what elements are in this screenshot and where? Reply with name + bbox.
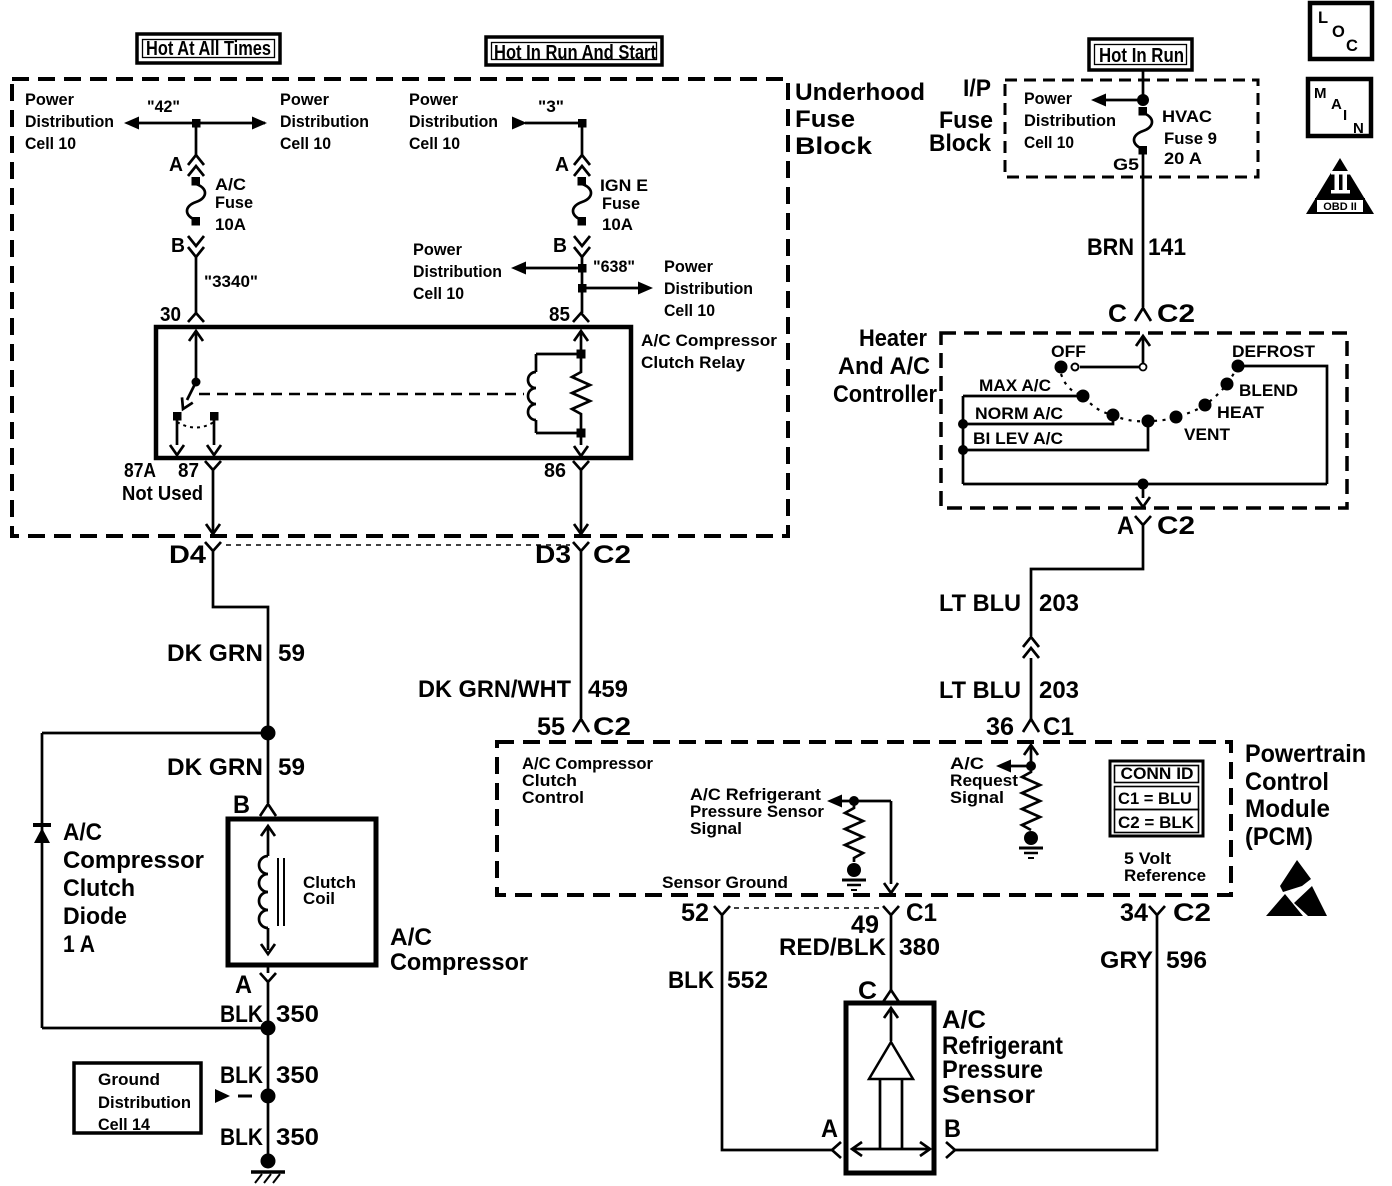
svg-text:A/C Compressor: A/C Compressor (522, 755, 654, 773)
connector 86 (573, 461, 589, 478)
relay switch arm (pin 30) (178, 331, 203, 412)
wire 3 rail to IGN E fuse (581, 123, 584, 155)
svg-text:OBD II: OBD II (1323, 201, 1357, 213)
wire output down (1136, 484, 1150, 507)
svg-text:380: 380 (899, 934, 940, 961)
node junction ground dist (261, 1089, 276, 1104)
OBD II symbol (1306, 158, 1374, 214)
wire MAX A/C to bus (963, 395, 1083, 398)
label A/C Compressor Clutch Control (522, 755, 654, 807)
connector A compressor (260, 965, 276, 990)
connector A C2 below controller (1117, 512, 1195, 540)
svg-text:Block: Block (929, 130, 992, 157)
junction square bottom (pin 86) (577, 429, 586, 438)
svg-text:Reference: Reference (1124, 867, 1206, 885)
svg-text:Clutch Relay: Clutch Relay (641, 354, 746, 372)
wire splice to 36 (1030, 658, 1033, 719)
connector C at sensor (858, 977, 899, 1005)
svg-text:350: 350 (276, 1124, 319, 1151)
wire controller A to PCM 36 (1031, 538, 1143, 636)
arrow to power distribution (I/P) (1091, 94, 1143, 107)
svg-text:A/C: A/C (63, 819, 102, 846)
svg-text:Fuse 9: Fuse 9 (1164, 130, 1217, 148)
svg-text:DK GRN/WHT: DK GRN/WHT (418, 676, 571, 703)
rotary switch wiper (1072, 364, 1079, 371)
svg-text:87: 87 (178, 460, 199, 482)
svg-text:34: 34 (1120, 899, 1148, 927)
svg-text:BLEND: BLEND (1239, 382, 1298, 400)
left bus wire (962, 396, 965, 484)
connector 55 C2 at PCM (537, 713, 631, 741)
clutch coil (259, 826, 284, 954)
svg-text:Module: Module (1245, 795, 1330, 823)
underhood fuse block dashed border (12, 79, 788, 536)
svg-text:A: A (1331, 96, 1342, 113)
PCM dashed border (497, 742, 1231, 895)
svg-text:Request: Request (950, 772, 1019, 790)
svg-text:Fuse: Fuse (215, 194, 253, 212)
wire sensor B to 34 (955, 925, 1157, 1150)
wire 86 to D3 (574, 478, 588, 534)
relay contact 87 (210, 412, 219, 421)
svg-text:Heater: Heater (859, 325, 927, 352)
svg-text:59: 59 (278, 754, 305, 781)
contact HEAT (1199, 399, 1212, 412)
rotary cam dotted arc (1061, 366, 1238, 421)
svg-text:IGN E: IGN E (600, 177, 648, 195)
node junction pressure signal (849, 796, 859, 806)
svg-text:And A/C: And A/C (838, 353, 930, 380)
svg-text:141: 141 (1148, 234, 1186, 261)
svg-text:"638": "638" (593, 258, 635, 276)
contact BLEND (1221, 378, 1234, 391)
MAIN symbol box (1308, 79, 1371, 137)
wire HVAC fuse down to C2 (1142, 150, 1145, 307)
svg-text:GRY: GRY (1100, 947, 1153, 974)
label Power Distribution Cell 10 (middle top) (409, 91, 498, 153)
svg-text:C2: C2 (1173, 899, 1211, 927)
svg-text:BI LEV A/C: BI LEV A/C (973, 430, 1063, 448)
svg-text:Powertrain: Powertrain (1245, 740, 1366, 768)
svg-text:Sensor: Sensor (942, 1081, 1035, 1109)
label A/C Compressor Clutch Diode 1 A (63, 819, 204, 958)
diode A/C compressor clutch diode (33, 823, 51, 843)
svg-text:Fuse: Fuse (795, 106, 855, 133)
label Power Distribution Cell 10 (left of 638) (413, 241, 502, 303)
svg-text:DEFROST: DEFROST (1232, 343, 1315, 361)
svg-text:Distribution: Distribution (98, 1094, 191, 1112)
label Clutch Coil (303, 874, 356, 908)
svg-text:B: B (944, 1115, 961, 1143)
svg-text:59: 59 (278, 640, 305, 667)
svg-text:C1 = BLU: C1 = BLU (1118, 790, 1192, 808)
arrow A/C request signal (996, 760, 1031, 773)
svg-text:L: L (1318, 9, 1328, 27)
svg-text:10A: 10A (602, 216, 633, 234)
wire fuse B to relay 30 (195, 257, 198, 313)
node output junction (1138, 479, 1149, 490)
svg-text:OFF: OFF (1051, 343, 1086, 361)
relay coil (528, 354, 581, 433)
wire C2 into controller (1136, 336, 1150, 367)
wire Hot In Run into I/P block (1142, 70, 1145, 100)
svg-text:A: A (1117, 512, 1134, 540)
fuse HVAC Fuse 9 20 A (1134, 107, 1152, 155)
svg-text:Power: Power (413, 241, 463, 259)
svg-text:HEAT: HEAT (1217, 404, 1264, 422)
svg-text:Cell 10: Cell 10 (25, 135, 76, 153)
CONN ID table (1110, 761, 1203, 836)
svg-text:Power: Power (664, 258, 714, 276)
svg-text:I/P: I/P (963, 75, 991, 102)
ground G101 (251, 1154, 285, 1184)
label Powertrain Control Module (PCM) (1245, 740, 1366, 851)
label BLK 350 (1) (220, 1001, 319, 1028)
connector row dashed line D4-D3 (226, 544, 570, 546)
compressor box (228, 819, 376, 965)
svg-text:5 Volt: 5 Volt (1124, 850, 1172, 868)
label I/P Fuse Block (929, 75, 993, 157)
svg-text:C: C (1108, 300, 1127, 328)
label Underhood Fuse Block (795, 79, 925, 160)
node junction request signal (1026, 761, 1036, 771)
arrow contact 87A to case (170, 420, 184, 455)
label RED/BLK 380 (779, 934, 940, 961)
svg-text:D3: D3 (535, 541, 571, 569)
svg-text:Clutch: Clutch (63, 875, 135, 902)
wire pressure signal to 49 (884, 801, 898, 893)
svg-text:Cell 10: Cell 10 (280, 135, 331, 153)
svg-text:Pressure Sensor: Pressure Sensor (690, 803, 825, 821)
node junction BLK/diode return (261, 1021, 276, 1036)
svg-text:G5: G5 (1113, 156, 1139, 174)
svg-text:C1: C1 (906, 899, 937, 927)
heater and A/C controller dashed border (941, 333, 1347, 508)
svg-text:Control: Control (1245, 768, 1329, 796)
svg-text:BLK: BLK (220, 1062, 264, 1089)
junction square top (pin 85) (577, 350, 586, 359)
wire compressor A to ground (267, 990, 270, 1158)
wire D3 to PCM 55 (580, 566, 583, 718)
header box Hot In Run (1089, 39, 1192, 70)
arrow contact 87 to case (207, 420, 221, 455)
svg-text:350: 350 (276, 1001, 319, 1028)
label GRY 596 (1100, 947, 1207, 974)
svg-text:Compressor: Compressor (63, 847, 204, 874)
svg-text:30: 30 (160, 304, 181, 326)
svg-text:B: B (233, 791, 250, 819)
svg-text:86: 86 (544, 460, 566, 482)
svg-text:CONN ID: CONN ID (1121, 765, 1194, 783)
connector chevrons pin A (574, 155, 590, 176)
resistor pressure signal pull-up (845, 801, 863, 862)
svg-text:C: C (1346, 37, 1358, 55)
svg-text:Control: Control (522, 789, 584, 807)
wire NORM A/C to bus (963, 415, 1113, 424)
splice connector chevrons (1023, 637, 1039, 658)
svg-text:VENT: VENT (1184, 426, 1230, 444)
connector 34 C2 at PCM bottom (1120, 899, 1211, 927)
svg-text:I: I (1343, 107, 1347, 124)
svg-text:203: 203 (1039, 677, 1079, 704)
sensor internal symbol (852, 1008, 930, 1156)
svg-text:Cell 10: Cell 10 (409, 135, 460, 153)
label DK GRN 59 (lower) (167, 754, 305, 781)
svg-text:"3340": "3340" (204, 273, 258, 291)
svg-text:NORM A/C: NORM A/C (975, 405, 1063, 423)
fuse A/C Fuse 10A (187, 177, 205, 226)
label BLK 350 (3) (220, 1124, 319, 1151)
svg-text:Not Used: Not Used (122, 483, 203, 505)
svg-text:Power: Power (280, 91, 330, 109)
wire fuse B down (581, 257, 584, 313)
svg-text:A: A (821, 1115, 838, 1143)
wire sensor A to 52 (722, 925, 832, 1150)
label LT BLU 203 (upper) (939, 590, 1079, 617)
label DK GRN 59 (167, 640, 305, 667)
wire DEFROST to bottom bus (1238, 366, 1327, 484)
label A/C Refrigerant Pressure Sensor (942, 1006, 1064, 1109)
label A/C Compressor (390, 924, 528, 976)
svg-text:Distribution: Distribution (1024, 112, 1116, 130)
svg-text:A: A (235, 971, 252, 999)
svg-text:Power: Power (25, 91, 75, 109)
svg-text:LT BLU: LT BLU (939, 677, 1021, 704)
connector 49 C1 at PCM bottom (851, 899, 937, 939)
svg-text:A/C: A/C (942, 1006, 986, 1034)
contact DEFROST (1232, 360, 1245, 373)
label 5 Volt Reference (1124, 850, 1206, 885)
label BLK 350 (2) (220, 1062, 319, 1089)
label HVAC Fuse 9 20 A (1162, 108, 1217, 168)
node splice junction DK GRN (261, 726, 276, 741)
svg-text:Pressure: Pressure (942, 1056, 1043, 1084)
svg-text:C2: C2 (1157, 300, 1195, 328)
svg-text:Hot In Run And Start: Hot In Run And Start (494, 42, 656, 64)
node junction HVAC feed (1137, 94, 1149, 106)
connector row dashed line 52-49 (734, 907, 879, 909)
svg-text:RED/BLK: RED/BLK (779, 934, 887, 961)
svg-text:MAX A/C: MAX A/C (979, 377, 1051, 395)
ground distribution box (74, 1063, 201, 1134)
svg-text:N: N (1353, 120, 1364, 137)
label LT BLU 203 (lower) (939, 677, 1079, 704)
svg-text:A: A (555, 154, 569, 176)
connector 36 C1 at PCM (986, 713, 1074, 741)
svg-text:Cell 10: Cell 10 (1024, 134, 1074, 152)
wire pin85 into relay (574, 331, 588, 350)
contact MAX A/C (1077, 390, 1090, 403)
connector 52 at PCM bottom (681, 899, 730, 927)
contact NORM A/C (1107, 409, 1120, 422)
svg-text:Compressor: Compressor (390, 949, 528, 976)
label DK GRN/WHT 459 (418, 676, 628, 703)
relay contact 87A (173, 412, 182, 421)
svg-text:Controller: Controller (833, 381, 937, 408)
wire 49 to sensor C (890, 925, 893, 990)
svg-text:C1: C1 (1043, 713, 1074, 741)
header box Hot At All Times (137, 34, 280, 63)
svg-text:87A: 87A (124, 460, 156, 482)
node "3" rail (512, 98, 587, 130)
svg-text:552: 552 (727, 967, 768, 994)
label A/C Compressor Clutch Relay (641, 332, 778, 372)
connector 30 (188, 313, 204, 322)
svg-text:O: O (1332, 23, 1345, 41)
svg-text:A/C: A/C (950, 755, 984, 773)
LOC symbol box (1310, 3, 1372, 59)
svg-text:10A: 10A (215, 216, 246, 234)
svg-text:Hot At All Times: Hot At All Times (146, 38, 271, 60)
relay coil resistor (572, 358, 590, 429)
relay coil control dashed line (199, 393, 524, 396)
connector chevrons pin B (188, 236, 204, 257)
svg-text:M: M (1314, 85, 1327, 102)
label Power Distribution Cell 10 (right of 42) (280, 91, 369, 153)
dotted mechanical link between contacts (177, 422, 214, 428)
svg-text:"42": "42" (147, 98, 180, 116)
connector D4 at fuse block (169, 541, 221, 569)
label A/C Request Signal (950, 755, 1019, 807)
wire 87 to D4 (206, 478, 220, 534)
label Heater And A/C Controller (833, 325, 937, 408)
svg-text:Distribution: Distribution (664, 280, 753, 298)
wire diode branch to junction (42, 1027, 268, 1030)
label BRN 141 (1087, 234, 1186, 261)
svg-text:Cell 14: Cell 14 (98, 1116, 151, 1134)
svg-text:Cell 10: Cell 10 (664, 302, 715, 320)
svg-text:596: 596 (1166, 947, 1207, 974)
ESD sensitive symbol (1266, 860, 1327, 916)
wire pin86 out of relay (574, 437, 588, 456)
arrow pressure sensor signal (827, 795, 891, 808)
svg-text:C2 = BLK: C2 = BLK (1118, 814, 1194, 832)
svg-text:A/C Compressor: A/C Compressor (641, 332, 778, 350)
svg-text:D4: D4 (169, 541, 206, 569)
connector 85 (573, 313, 589, 322)
label A/C Refrigerant Pressure Sensor Signal (690, 786, 825, 838)
label A/C Fuse 10A (215, 176, 253, 234)
resistor A/C request pull (1022, 766, 1040, 830)
svg-text:350: 350 (276, 1062, 319, 1089)
connector B sensor (946, 1142, 955, 1158)
svg-text:C2: C2 (1157, 512, 1195, 540)
connector A sensor (832, 1142, 841, 1158)
wire 36 into PCM (1024, 745, 1038, 766)
svg-text:DK GRN: DK GRN (167, 640, 263, 667)
svg-text:Block: Block (795, 133, 873, 160)
svg-text:52: 52 (681, 899, 709, 927)
wire diode branch down (41, 733, 44, 1028)
contact BI LEV A/C (1142, 415, 1155, 428)
svg-text:LT BLU: LT BLU (939, 590, 1021, 617)
svg-text:C2: C2 (593, 713, 631, 741)
svg-text:DK GRN: DK GRN (167, 754, 263, 781)
svg-text:"3": "3" (538, 98, 564, 116)
svg-text:Distribution: Distribution (280, 113, 369, 131)
node 638 junction to right (578, 282, 653, 295)
svg-text:C2: C2 (593, 541, 631, 569)
I/P fuse block dashed border (1005, 80, 1258, 177)
svg-text:Signal: Signal (950, 789, 1004, 807)
wire 42 rail to fuse A (195, 123, 198, 155)
ground A/C request (1019, 831, 1043, 858)
svg-text:B: B (553, 235, 567, 257)
svg-text:BRN: BRN (1087, 234, 1134, 261)
wire D4 to junction (DK GRN 59) (213, 566, 268, 732)
contact VENT (1170, 411, 1183, 424)
rotary switch common wire (1080, 366, 1143, 369)
pressure sensor box (846, 1003, 934, 1173)
relay K A/C Compressor Clutch Relay box (156, 327, 631, 458)
wire junction to diode branch (42, 732, 268, 735)
node "42" rail (124, 98, 267, 130)
svg-text:Sensor Ground: Sensor Ground (662, 874, 788, 892)
connector chevrons pin A (188, 155, 204, 176)
contact OFF (1055, 361, 1068, 374)
svg-text:Signal: Signal (690, 820, 742, 838)
svg-text:A: A (169, 154, 183, 176)
svg-text:B: B (171, 235, 185, 257)
label IGN E Fuse 10A (600, 177, 648, 234)
svg-text:Ground: Ground (98, 1071, 160, 1089)
svg-text:A/C: A/C (215, 176, 246, 194)
connector C C2 at heater controller (1108, 300, 1195, 328)
svg-text:BLK: BLK (220, 1001, 264, 1028)
svg-text:A/C: A/C (390, 924, 432, 951)
header box Hot In Run And Start (486, 37, 662, 65)
svg-text:20 A: 20 A (1164, 150, 1202, 168)
node 638 junction to left (511, 258, 635, 276)
arrow ground distribution to wire (215, 1089, 252, 1103)
svg-text:Clutch: Clutch (522, 772, 577, 790)
svg-text:Coil: Coil (303, 890, 335, 908)
label Power Distribution Cell 10 (right of 638) (664, 258, 753, 320)
svg-text:Underhood: Underhood (795, 79, 925, 106)
svg-text:1 A: 1 A (63, 931, 95, 958)
svg-text:BLK: BLK (668, 967, 715, 994)
label BLK 552 (668, 967, 768, 994)
svg-text:Cell 10: Cell 10 (413, 285, 464, 303)
fuse IGN E Fuse 10A (573, 177, 591, 226)
svg-text:HVAC: HVAC (1162, 108, 1212, 126)
svg-text:BLK: BLK (220, 1124, 264, 1151)
svg-text:Fuse: Fuse (602, 195, 640, 213)
connector chevrons pin B (574, 236, 590, 257)
svg-text:203: 203 (1039, 590, 1079, 617)
svg-text:55: 55 (537, 713, 565, 741)
connector B compressor (260, 804, 276, 816)
svg-text:Diode: Diode (63, 903, 127, 930)
connector D3 C2 at fuse block (535, 541, 631, 569)
bottom bus wire (963, 483, 1327, 486)
svg-text:459: 459 (588, 676, 628, 703)
svg-text:Power: Power (409, 91, 459, 109)
svg-text:Hot In Run: Hot In Run (1099, 45, 1184, 67)
ground pressure signal (842, 863, 866, 890)
svg-text:A/C Refrigerant: A/C Refrigerant (690, 786, 822, 804)
svg-text:(PCM): (PCM) (1245, 823, 1313, 851)
wire BI LEV A/C to bus (963, 421, 1148, 450)
svg-text:Distribution: Distribution (413, 263, 502, 281)
svg-text:36: 36 (986, 713, 1014, 741)
svg-text:Distribution: Distribution (409, 113, 498, 131)
connector 87 (205, 461, 221, 478)
wire junction down to compressor B (267, 733, 270, 803)
svg-text:Distribution: Distribution (25, 113, 114, 131)
label Power Distribution Cell 10 (top left) (25, 91, 114, 153)
svg-text:85: 85 (549, 304, 570, 326)
